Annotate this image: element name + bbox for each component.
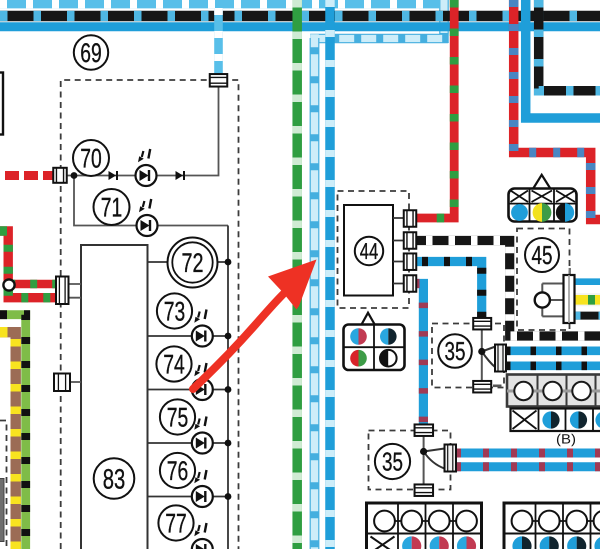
wire blue/black horn 35a upper — [505, 346, 600, 355]
box 83 instrument panel — [81, 245, 148, 549]
horn symbol 35b — [420, 436, 445, 485]
label circle 83 — [94, 458, 135, 499]
wire red/blue stepped top right — [514, 0, 600, 220]
wire solid blue to 45 bulb — [574, 278, 600, 285]
dashed box left bottom component — [0, 421, 7, 549]
LED 73 — [192, 310, 213, 347]
wire red/green upper branch — [8, 280, 57, 288]
pin stubs of 44 — [393, 218, 404, 284]
wire vertical bus cathode line — [227, 226, 229, 549]
connector block bottom right — [504, 503, 600, 549]
wire LED row 75 — [148, 442, 229, 444]
svg-text:70: 70 — [80, 144, 102, 174]
wire blue/red from 44 pin4 — [414, 284, 423, 427]
node dots on cathode bus — [225, 259, 232, 500]
wire row 72 — [148, 261, 229, 263]
svg-text:35: 35 — [445, 336, 466, 366]
label circle 35 horn b — [375, 444, 410, 479]
wire blue/red horn 35b lower — [455, 462, 600, 471]
headlamp connector block with X cells and color circles — [509, 175, 577, 222]
label circle 70 — [73, 140, 109, 176]
wire LED row 76 — [148, 496, 229, 498]
pin connector 44-2 — [404, 232, 417, 249]
LED 70 — [136, 149, 157, 186]
wire blue/black from 44 pin3 — [414, 262, 482, 320]
wire solid blue horizontal top — [0, 22, 600, 31]
pin connector 44-1 — [404, 210, 417, 227]
output connector 35b — [445, 445, 457, 472]
connector block bottom center (turn signal) — [367, 503, 482, 549]
junction open circle on red/green — [3, 279, 14, 290]
svg-text:75: 75 — [167, 403, 189, 433]
wire L/W vertical stub top right corner — [440, 0, 449, 43]
svg-text:69: 69 — [80, 38, 102, 68]
output connector 35a — [495, 345, 506, 372]
label circle 44 — [355, 237, 383, 265]
wire black/white from 44 pin2 — [414, 241, 600, 337]
connector block with X and blue/black circles (upper right) — [511, 409, 600, 432]
wire LED row 73 — [148, 335, 229, 337]
svg-text:(B): (B) — [556, 432, 576, 447]
wire light-blue/white striped horizontal top — [0, 0, 440, 8]
connector pair red/green to cluster — [56, 277, 81, 305]
connector top of box 69 — [210, 74, 228, 87]
connector bottom 35a — [473, 381, 491, 393]
svg-text:45: 45 — [532, 240, 553, 270]
svg-text:44: 44 — [360, 238, 379, 264]
relay box 44 — [344, 205, 393, 296]
wire black/blue corner top right — [539, 0, 600, 91]
svg-text:72: 72 — [182, 248, 204, 278]
small dash mark left of gray block — [493, 384, 502, 387]
svg-text:74: 74 — [163, 350, 185, 380]
LED 71 — [137, 199, 158, 236]
label circle 71 — [94, 189, 130, 225]
wire blue/red horn 35b upper — [455, 449, 600, 458]
bulb symbol inside 45 — [535, 268, 575, 323]
wire red/green left with branch — [0, 231, 57, 298]
wire yellow/green to 45 bulb — [574, 293, 600, 306]
label circle 73 — [157, 293, 192, 328]
LED 74 — [192, 363, 213, 400]
svg-text:35: 35 — [382, 447, 403, 477]
wire red/green vertical to pin1 of 44 — [414, 0, 454, 218]
connector top 35b — [415, 424, 434, 436]
label circle 35 horn a — [438, 334, 472, 368]
wire L/W pale striped horizontal — [310, 34, 448, 43]
wire LED row 74 — [148, 389, 229, 391]
wire light-blue/white drop to instrument connector — [214, 8, 223, 75]
connector top 35a — [473, 318, 491, 330]
wire black/blue to 45 bulb — [574, 312, 600, 320]
dashed box around 35 horn a — [432, 324, 504, 388]
wire blue/black horn 35a lower — [505, 361, 600, 370]
diode right of LED 70 — [176, 171, 185, 180]
pin connector 44-3 — [404, 253, 417, 270]
svg-text:76: 76 — [167, 456, 189, 486]
wire gray LED71 row — [74, 176, 228, 226]
wire blue/white vertical — [325, 0, 335, 549]
connector block gray with round pins (upper right) — [507, 375, 600, 407]
red pointer arrow — [193, 260, 317, 390]
wire solid blue corner top right — [526, 0, 600, 118]
wire L/W pale striped vertical — [310, 34, 319, 549]
meter symbol 72 double circle — [168, 238, 218, 288]
connector bottom 35b — [415, 484, 434, 496]
wire yellow-green/black left — [0, 315, 26, 549]
horn symbol 35a — [478, 330, 495, 382]
component box at left edge top — [0, 73, 3, 135]
dashed box around 35 horn b — [369, 431, 451, 490]
connector red/white to cluster — [53, 168, 67, 183]
wire gray from connector to LED 70 row — [66, 86, 219, 176]
label circle 69 — [74, 35, 108, 69]
dashed box around 45 — [517, 229, 570, 331]
svg-text:73: 73 — [164, 297, 186, 327]
label circle 74 — [156, 346, 191, 381]
label circle 45 — [525, 238, 559, 272]
dashed box around 44 — [338, 191, 410, 308]
pin connector 44-4 — [404, 275, 417, 292]
label circle 77 — [158, 505, 193, 540]
svg-text:77: 77 — [165, 509, 187, 539]
connector block 4-pin with wire color circles — [344, 313, 405, 370]
wire brown/yellow left — [0, 332, 16, 549]
wire red/white horizontal left — [0, 171, 54, 180]
label circle 75 — [160, 399, 195, 434]
LED 75 — [192, 417, 213, 454]
harness dashed box 69 — [61, 80, 239, 549]
label circle 76 — [160, 453, 195, 488]
wire black/blue horizontal top — [0, 11, 600, 22]
svg-text:83: 83 — [103, 463, 126, 494]
LED 77 — [192, 523, 213, 549]
wire green/white vertical — [292, 0, 302, 549]
node junction at red/white input — [71, 172, 78, 179]
diode left of LED 70 — [109, 171, 118, 180]
LED 76 — [192, 470, 213, 507]
gray component stub bottom left — [0, 479, 4, 542]
svg-text:71: 71 — [101, 193, 123, 223]
connector mid-left to cluster — [54, 374, 81, 392]
